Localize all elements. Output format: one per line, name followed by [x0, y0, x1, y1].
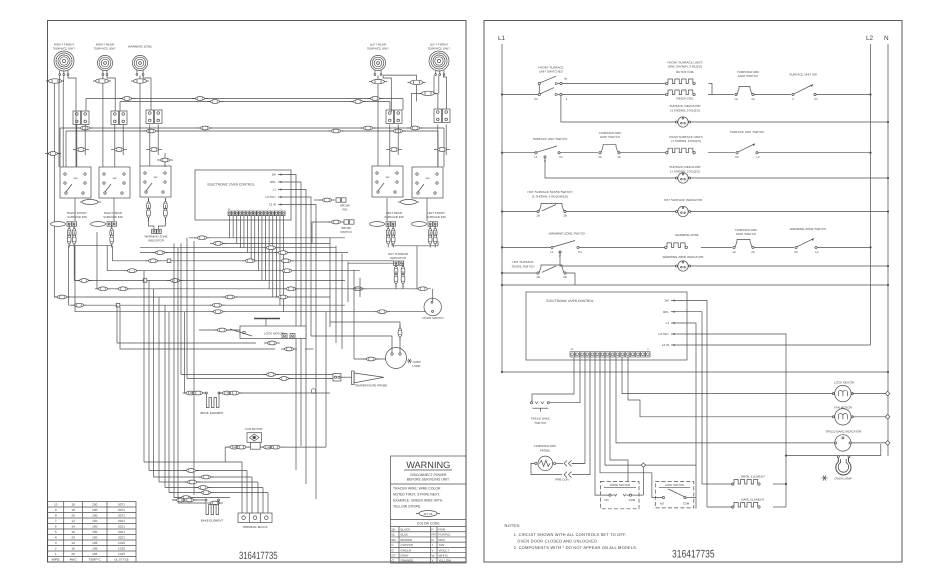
surface unit coil: right rear — [97, 55, 112, 70]
terminal block risers — [241, 462, 243, 513]
right front coil drop wires — [53, 83, 55, 297]
thermal limiter: right front limiter — [73, 111, 81, 124]
svg-text:L2: L2 — [866, 35, 874, 42]
switch block: right front surface switch — [60, 167, 91, 198]
svg-text:200: 200 — [92, 508, 97, 512]
svg-text:3321: 3321 — [118, 530, 125, 534]
svg-text:COPPER: COPPER — [401, 543, 415, 547]
svg-text:RED: RED — [439, 538, 446, 542]
svg-text:200: 200 — [92, 514, 97, 518]
svg-text:20: 20 — [71, 536, 75, 540]
svg-text:WARMING ZONE SWITCH: WARMING ZONE SWITCH — [790, 227, 827, 231]
svg-text:1. CIRCUIT SHOWN WITH ALL CON: 1. CIRCUIT SHOWN WITH ALL CONTROLS SET T… — [514, 532, 627, 537]
wire bus upper second — [120, 101, 390, 103]
svg-text:OUTER COIL: OUTER COIL — [676, 70, 695, 74]
svg-text:2A: 2A — [598, 155, 602, 159]
svg-text:H1: H1 — [578, 250, 582, 254]
svg-text:(1 SHOWN, 2 REQ’D): (1 SHOWN, 2 REQ’D) — [671, 139, 701, 143]
svg-text:BEFORE SERVICING UNIT.: BEFORE SERVICING UNIT. — [407, 478, 450, 482]
svg-text:WARMING ZONE INDICATOR: WARMING ZONE INDICATOR — [663, 255, 705, 259]
left rear coil drop wires — [377, 84, 379, 166]
junction circle node — [311, 389, 316, 394]
switch block: left rear surface switch — [372, 166, 403, 197]
svg-text:SURFACE UNIT: SURFACE UNIT — [53, 47, 75, 51]
broil element feed wires — [185, 312, 205, 393]
svg-text:SURFACE UNIT SWITCH: SURFACE UNIT SWITCH — [533, 137, 568, 141]
svg-text:3071: 3071 — [118, 503, 125, 507]
svg-text:INNER COIL: INNER COIL — [676, 97, 694, 101]
svg-text:L1: L1 — [666, 321, 670, 325]
svg-text:HOT SURFACE: HOT SURFACE — [512, 260, 533, 264]
svg-text:PINK: PINK — [439, 527, 446, 531]
svg-text:BAKE ELEMENT: BAKE ELEMENT — [201, 519, 223, 523]
electronic oven control box (right page) — [526, 292, 687, 360]
svg-text:H1: H1 — [559, 155, 563, 159]
hot surface sense switch (rung 3) — [537, 210, 539, 212]
svg-text:L2 IN: L2 IN — [662, 343, 669, 347]
indicator loop wire — [392, 245, 438, 247]
svg-text:4a: 4a — [564, 77, 568, 81]
eoc terminal strip (left page) — [228, 211, 231, 216]
svg-text:16: 16 — [71, 530, 75, 534]
switch box lead connectors — [74, 198, 76, 221]
svg-text:TAN: TAN — [439, 543, 445, 547]
svg-text:BAKE ELEMENT: BAKE ELEMENT — [741, 498, 764, 502]
svg-text:2: 2 — [55, 547, 57, 551]
svg-text:OVEN LAMP: OVEN LAMP — [834, 477, 852, 481]
left page frame — [48, 21, 467, 563]
svg-text:1A: 1A — [732, 250, 736, 254]
svg-text:BK: BK — [665, 299, 669, 303]
svg-text:BROIL ELEMENT: BROIL ELEMENT — [741, 475, 765, 479]
svg-text:IND: IND — [343, 208, 348, 212]
svg-text:L1: L1 — [273, 188, 277, 192]
speed bake indicator connectors — [314, 199, 321, 201]
svg-text:(1 SHOWN, 2 REQ’D): (1 SHOWN, 2 REQ’D) — [670, 109, 700, 113]
svg-text:SURFACE UNIT: SURFACE UNIT — [94, 47, 116, 51]
connector below left rear coil — [377, 76, 379, 80]
bake element connectors — [172, 499, 205, 501]
right front to right rear indicator link wire — [69, 244, 112, 246]
left front coil drop wires — [433, 76, 435, 94]
svg-text:YELLOW STRIPE.: YELLOW STRIPE. — [393, 505, 421, 509]
svg-text:L2: L2 — [756, 155, 760, 159]
svg-text:G/Y-18: G/Y-18 — [424, 512, 433, 516]
svg-text:SURFACE UNIT SW: SURFACE UNIT SW — [789, 73, 817, 77]
svg-text:20: 20 — [71, 514, 75, 518]
svg-text:GRAY: GRAY — [401, 553, 409, 557]
svg-text:UNIT SWITCHES: UNIT SWITCHES — [539, 70, 563, 74]
color code table — [391, 526, 467, 528]
svg-text:L2 OUT: L2 OUT — [658, 332, 669, 336]
wires from left bundle to lock motor connectors — [117, 305, 256, 343]
svg-text:DOOR SWITCH: DOOR SWITCH — [423, 316, 444, 320]
svg-text:3071: 3071 — [118, 514, 125, 518]
svg-text:1B: 1B — [536, 214, 540, 218]
rail L1 — [501, 44, 503, 372]
connector below left front coil — [411, 92, 438, 94]
svg-text:200: 200 — [92, 503, 97, 507]
svg-text:14: 14 — [71, 525, 75, 529]
svg-text:105: 105 — [92, 541, 97, 545]
long verticals to probe and fan area — [180, 243, 182, 374]
svg-text:L2 OUT: L2 OUT — [265, 195, 276, 199]
svg-text:2B: 2B — [563, 214, 567, 218]
lock motor assembly — [254, 318, 280, 320]
svg-text:10: 10 — [54, 503, 58, 507]
thermal limiter: right rear limiter — [111, 111, 119, 124]
svg-text:SURFACE IND: SURFACE IND — [384, 215, 403, 219]
svg-text:SURFACE INDICATOR: SURFACE INDICATOR — [669, 104, 701, 108]
oven lamp (left page) — [386, 348, 407, 369]
svg-text:LIMIT SWITCH: LIMIT SWITCH — [600, 135, 620, 139]
svg-text:LAMP: LAMP — [413, 364, 421, 368]
bake element (left page) — [206, 501, 219, 515]
svg-text:316417735: 316417735 — [672, 549, 715, 561]
bottom bus wire — [502, 284, 888, 286]
surface unit coil: right front — [54, 51, 74, 71]
svg-text:DOOR SWITCH: DOOR SWITCH — [610, 483, 630, 487]
svg-text:FAN MOTOR: FAN MOTOR — [245, 427, 262, 431]
right rear coil drop wires — [102, 83, 104, 167]
svg-text:LOCK MOTOR: LOCK MOTOR — [834, 380, 855, 384]
svg-text:BL: BL — [392, 533, 396, 537]
verticals feeding bottom cascade — [143, 271, 145, 462]
warming zone coil — [132, 55, 147, 70]
svg-text:150: 150 — [92, 519, 97, 523]
svg-text:SWITCH: SWITCH — [534, 421, 546, 425]
svg-text:SURFACE IND: SURFACE IND — [426, 215, 445, 219]
diamond junction node — [641, 463, 645, 467]
svg-text:6: 6 — [55, 525, 57, 529]
svg-text:GY: GY — [392, 553, 396, 557]
connector above warming zone switch — [164, 153, 166, 167]
svg-text:ORANGE: ORANGE — [401, 559, 414, 563]
warning box — [391, 456, 467, 563]
svg-text:150: 150 — [92, 525, 97, 529]
svg-text:HOT SURFACE SENSE SWITCH: HOT SURFACE SENSE SWITCH — [528, 190, 573, 194]
switch block: right rear surface switch — [99, 167, 130, 198]
svg-text:BROIL ELEMENT: BROIL ELEMENT — [200, 411, 223, 415]
thermal limiter: warming zone limiter — [146, 110, 154, 123]
warming zone coil drop wires — [139, 83, 141, 166]
svg-text:P2: P2 — [534, 97, 538, 101]
wires fanning from eoc terminal strip — [229, 216, 231, 238]
svg-text:EXAMPLE: GREEN WIRE WITH: EXAMPLE: GREEN WIRE WITH — [393, 499, 443, 503]
svg-text:105: 105 — [92, 547, 97, 551]
svg-text:3071: 3071 — [118, 508, 125, 512]
svg-text:OVEN DOOR CLOSED AND UNLOCKED.: OVEN DOOR CLOSED AND UNLOCKED. — [517, 538, 598, 543]
svg-text:1015: 1015 — [118, 541, 125, 545]
svg-text:PROBE: PROBE — [540, 449, 551, 453]
svg-text:8: 8 — [55, 514, 57, 518]
svg-text:BLACK: BLACK — [401, 527, 411, 531]
speed bake switch — [530, 402, 532, 404]
lock switch com wire — [686, 497, 696, 499]
bus under eoc — [502, 371, 888, 373]
svg-text:14: 14 — [71, 541, 75, 545]
oven lamp (right page) — [836, 458, 851, 475]
svg-text:V: V — [432, 548, 434, 552]
probe left loop wire to prb con — [531, 463, 562, 474]
connector below right front coil — [59, 76, 61, 80]
lock motor connectors — [264, 341, 280, 345]
svg-text:L1: L1 — [498, 35, 506, 42]
svg-text:3321: 3321 — [118, 519, 125, 523]
mesh horizontal rows — [189, 237, 345, 239]
connectors on lower bus — [77, 126, 93, 130]
oven lamp wire — [786, 455, 881, 457]
surface unit coil: left front — [429, 51, 449, 71]
svg-text:TERMINAL BLOCK: TERMINAL BLOCK — [242, 525, 267, 529]
svg-text:L2 IN: L2 IN — [269, 203, 276, 207]
svg-text:150: 150 — [92, 530, 97, 534]
svg-text:105: 105 — [92, 552, 97, 556]
example tracer wire connector — [416, 511, 440, 517]
door com wire via junction — [642, 467, 644, 495]
temperature probe (left page) — [333, 374, 341, 382]
svg-text:ELECTRONIC OVEN CONTROL: ELECTRONIC OVEN CONTROL — [547, 299, 594, 303]
svg-text:9: 9 — [55, 508, 57, 512]
svg-text:BK: BK — [272, 173, 276, 177]
svg-text:ELECTRONIC OVEN CONTROL: ELECTRONIC OVEN CONTROL — [208, 183, 255, 187]
svg-text:VIOLET: VIOLET — [439, 548, 450, 552]
wire gauge table — [48, 502, 136, 563]
svg-text:P: P — [432, 527, 434, 531]
svg-text:W: W — [432, 553, 435, 557]
connectors on upper bus — [119, 97, 135, 101]
svg-text:NOTES:: NOTES: — [505, 523, 521, 528]
connector oval between right switch boxes — [80, 201, 101, 203]
svg-text:LIMIT SWITCH: LIMIT SWITCH — [738, 74, 758, 78]
mid verticals to bottom components — [329, 238, 331, 327]
svg-text:7: 7 — [55, 519, 57, 523]
surface unit coil: left rear — [370, 55, 385, 70]
svg-text:GREEN: GREEN — [401, 548, 412, 552]
svg-text:PURPLE: PURPLE — [439, 533, 451, 537]
wire bus upper — [86, 98, 403, 100]
svg-text:2. COMPONENTS WITH * DO NOT: 2. COMPONENTS WITH * DO NOT APPEAR ON AL… — [514, 545, 638, 550]
wires from eoc right side — [678, 301, 707, 508]
wire from lock motor to mesh — [199, 329, 250, 331]
wire from left rear to left front area — [383, 75, 416, 78]
svg-text:PRB CON: PRB CON — [555, 478, 568, 482]
mesh connectors — [194, 236, 210, 240]
svg-text:L2: L2 — [815, 250, 819, 254]
svg-text:TRACER WIRE: WIRE COLOR: TRACER WIRE: WIRE COLOR — [393, 487, 441, 491]
svg-text:L1: L1 — [550, 250, 554, 254]
svg-text:150: 150 — [92, 536, 97, 540]
svg-text:SURFACE UNIT: SURFACE UNIT — [428, 47, 450, 51]
svg-text:BLUE: BLUE — [401, 533, 409, 537]
svg-text:SURFACE IND: SURFACE IND — [103, 215, 122, 219]
svg-text:WARMING ZONE: WARMING ZONE — [128, 45, 152, 49]
door switch feed wires — [415, 287, 431, 291]
svg-text:BK: BK — [392, 527, 396, 531]
thermal limiter: left rear limiter — [386, 110, 394, 123]
svg-text:T: T — [432, 543, 434, 547]
surface unit switch (rung 2) — [535, 152, 537, 154]
svg-text:2A: 2A — [751, 250, 755, 254]
connector below warming zone coil — [139, 76, 141, 80]
svg-text:1A: 1A — [734, 97, 738, 101]
svg-text:SENSE SWITCH: SENSE SWITCH — [512, 265, 535, 269]
svg-text:SWITCH: SWITCH — [340, 230, 351, 234]
rail L2 — [870, 44, 872, 345]
svg-text:WHITE: WHITE — [439, 553, 449, 557]
svg-text:TEMPERATURE: TEMPERATURE — [534, 444, 556, 448]
svg-text:2B: 2B — [563, 275, 567, 279]
right page frame — [484, 21, 902, 563]
svg-text:HOT SURFACE INDICATOR: HOT SURFACE INDICATOR — [664, 198, 703, 202]
broil element (left page) — [206, 394, 219, 408]
electronic oven control box (left page) — [195, 170, 291, 220]
svg-text:SURFACE UNIT: SURFACE UNIT — [367, 47, 389, 51]
svg-text:AWG: AWG — [69, 558, 77, 562]
wire bus lower — [60, 127, 444, 129]
svg-text:SPEED BAKE: SPEED BAKE — [531, 417, 550, 421]
svg-text:SPEED BAKE INDICATOR: SPEED BAKE INDICATOR — [825, 430, 862, 434]
svg-text:3321: 3321 — [118, 525, 125, 529]
wires from eoc outputs — [285, 175, 296, 471]
svg-text:N: N — [884, 35, 889, 42]
connector below right rear coil — [102, 76, 104, 80]
svg-text:(1 SHOWN, 4 REQUIRED): (1 SHOWN, 4 REQUIRED) — [532, 195, 568, 199]
svg-text:3: 3 — [55, 541, 57, 545]
connector oval on left front drop A — [416, 78, 418, 80]
svg-text:TEMPERATURE PROBE: TEMPERATURE PROBE — [355, 384, 388, 388]
indicator: warming zone indicator — [148, 198, 150, 226]
svg-text:COM: COM — [683, 502, 690, 506]
svg-text:12: 12 — [71, 519, 75, 523]
svg-text:BRL: BRL — [663, 310, 669, 314]
wire to oven lamp top — [311, 336, 392, 345]
svg-text:3321: 3321 — [118, 536, 125, 540]
svg-text:SURFACE IND: SURFACE IND — [67, 215, 86, 219]
svg-text:SURFACE INDICATOR: SURFACE INDICATOR — [669, 165, 701, 169]
svg-text:H2: H2 — [735, 155, 739, 159]
square junction nodes — [167, 259, 171, 263]
rail N — [887, 44, 889, 456]
hot surface sense switch (lower) — [502, 272, 537, 274]
svg-text:5: 5 — [55, 530, 57, 534]
terminal block — [238, 513, 272, 523]
svg-text:BROWN: BROWN — [401, 538, 413, 542]
wire from eoc L1 down to elements area — [695, 462, 697, 509]
svg-text:P1: P1 — [814, 97, 818, 101]
eoc terminal strip (right page) — [570, 352, 574, 357]
limiter lead wires — [76, 125, 78, 168]
speed bake switch connectors — [312, 222, 330, 243]
wires from eoc terminal strip (right page) — [532, 357, 574, 402]
svg-text:1A: 1A — [617, 155, 621, 159]
warming zone switch — [551, 246, 553, 248]
svg-text:SURFACE UNIT SWITCH: SURFACE UNIT SWITCH — [730, 130, 765, 134]
svg-text:1: 1 — [55, 552, 57, 556]
svg-text:(ONE SHOWN, 2 REQ’D): (ONE SHOWN, 2 REQ’D) — [668, 65, 702, 69]
svg-text:4: 4 — [55, 536, 57, 540]
svg-text:H2: H2 — [794, 250, 798, 254]
bottom cascade wires and connectors — [144, 461, 242, 463]
svg-text:LOCK SWITCH: LOCK SWITCH — [665, 483, 684, 487]
probe connector arrows — [564, 460, 572, 466]
svg-text:18: 18 — [71, 508, 75, 512]
svg-text:BRL: BRL — [270, 180, 276, 184]
svg-text:L1: L1 — [534, 155, 538, 159]
svg-text:WIRE: WIRE — [52, 558, 60, 562]
lock switch (right page) — [655, 481, 694, 508]
svg-text:COM: COM — [629, 498, 636, 502]
left verticals from indicators into mesh — [73, 246, 75, 281]
fan motor connectors — [224, 447, 226, 462]
svg-text:YELLOW: YELLOW — [439, 559, 452, 563]
svg-text:1015: 1015 — [118, 552, 125, 556]
svg-text:COLOR CODE: COLOR CODE — [417, 522, 441, 526]
thermal limiter: left front limiter — [434, 109, 442, 122]
door switch — [424, 298, 441, 315]
svg-text:WARMING ZONE: WARMING ZONE — [675, 233, 699, 237]
door switch (right page) — [601, 481, 640, 508]
svg-text:DISCONNECT POWER: DISCONNECT POWER — [410, 473, 447, 477]
switch block: warming zone switch — [140, 166, 171, 197]
svg-text:16: 16 — [71, 503, 75, 507]
frame edge connector — [48, 153, 61, 155]
switch block: left front surface switch — [412, 167, 443, 198]
oven lamp feed wire — [354, 358, 386, 360]
temperature probe wires — [181, 374, 333, 376]
svg-text:Y: Y — [432, 559, 434, 563]
svg-text:16: 16 — [71, 547, 75, 551]
svg-text:INDICATOR: INDICATOR — [148, 238, 164, 242]
svg-text:UL STYLE: UL STYLE — [114, 558, 129, 562]
svg-text:WARMING ZONE SWITCH: WARMING ZONE SWITCH — [549, 232, 586, 236]
svg-text:1B: 1B — [536, 275, 540, 279]
svg-text:WARNING: WARNING — [406, 460, 450, 470]
svg-text:20: 20 — [71, 552, 75, 556]
svg-text:NOTED FIRST, STRIPE NEXT.: NOTED FIRST, STRIPE NEXT. — [393, 493, 440, 497]
svg-text:2A: 2A — [751, 97, 755, 101]
front surface unit switch — [501, 93, 503, 95]
svg-text:INDICATOR: INDICATOR — [390, 256, 406, 260]
svg-text:1015: 1015 — [118, 547, 125, 551]
notes text — [505, 523, 638, 550]
extra row connectors at left — [54, 295, 70, 299]
svg-text:316417735: 316417735 — [239, 550, 278, 562]
coil lead wires and terminals — [59, 71, 61, 74]
svg-text:LIMIT SWITCH: LIMIT SWITCH — [736, 232, 756, 236]
svg-text:TEMP°C: TEMP°C — [89, 558, 102, 562]
connector oval between left switch boxes — [398, 201, 419, 203]
